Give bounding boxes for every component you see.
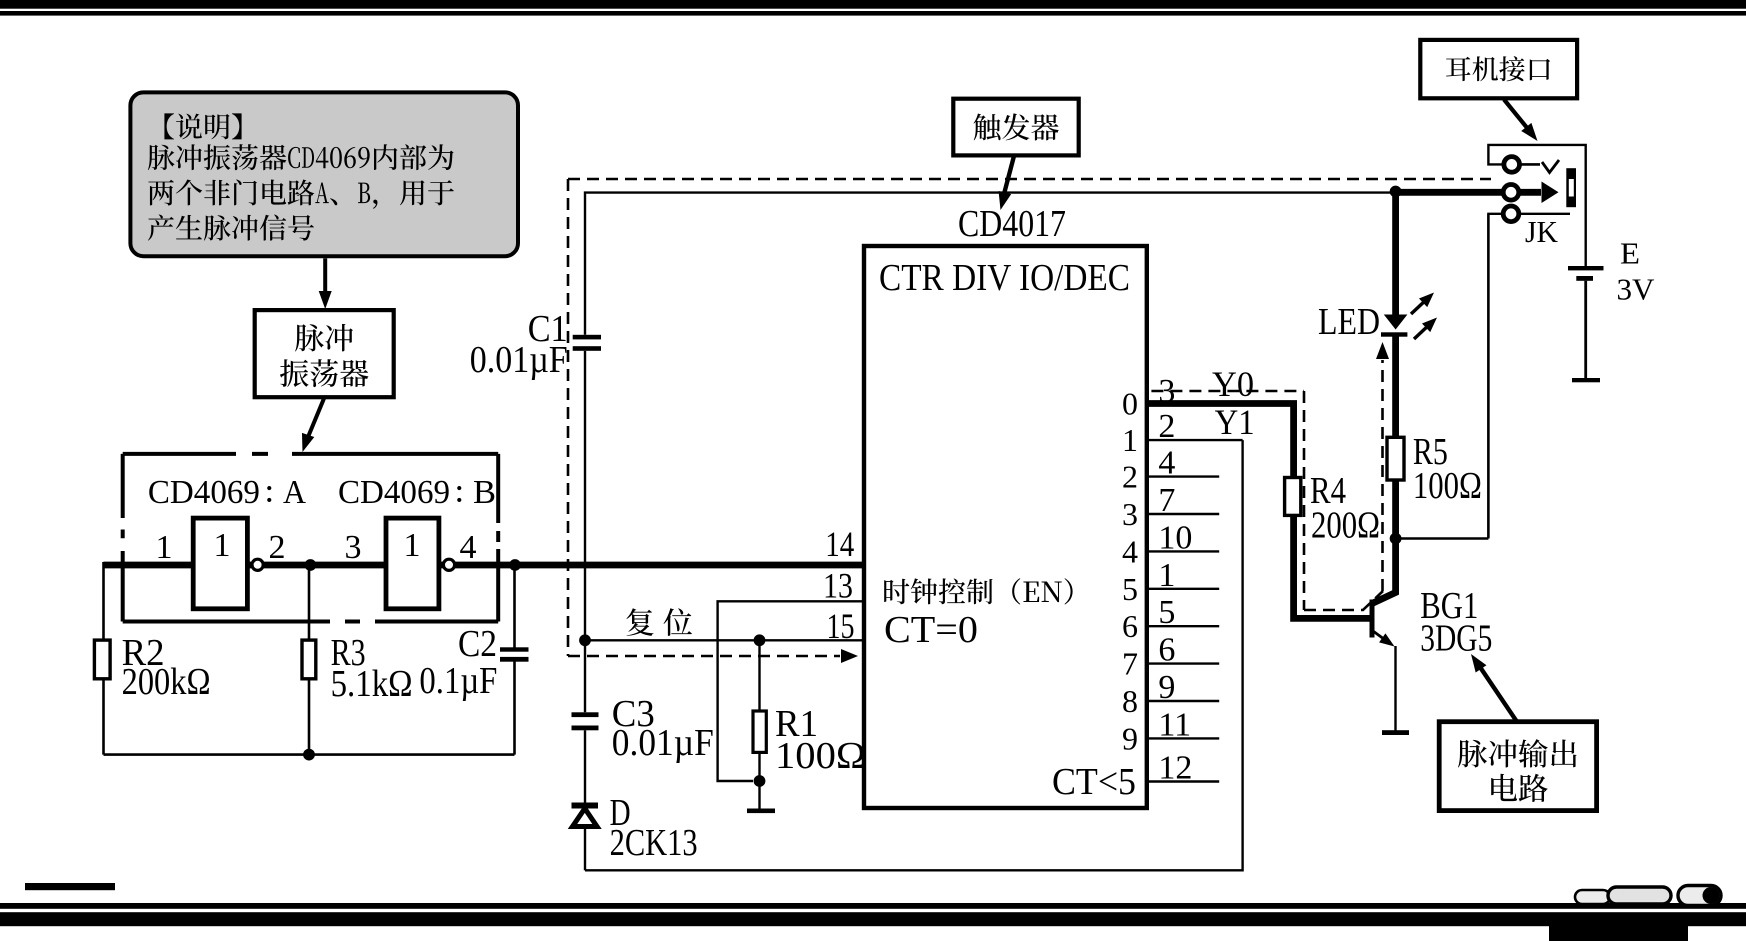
jack switch contact [1519,160,1559,173]
transistor BG1 collector [1372,480,1396,604]
note text line1 说明 [164,113,241,139]
pin label 4 [460,529,477,566]
arrow headphone->jack [1504,100,1538,142]
pin 14 label [825,524,854,564]
label BG1 [1420,585,1478,627]
svg-text:4: 4 [460,529,477,566]
node junction collector-jack [1390,533,1402,545]
label CT&lt;5 [1052,761,1136,803]
resistor R3 [302,640,316,679]
svg-text:11: 11 [1158,706,1191,743]
resistor R1 [753,711,766,752]
svg-text:CT=0: CT=0 [884,609,978,651]
wire emitter-ground [1394,646,1396,731]
svg-text:1: 1 [1158,557,1175,594]
dashed boundary top [568,178,1491,181]
label R1 value [775,735,866,777]
block 脉冲输出电路 [1439,722,1596,811]
dashed Y0 path vertical [1303,391,1306,610]
pin line out 7 [1147,662,1219,664]
text 脉冲输出 [1458,739,1577,768]
label E value [1617,272,1656,307]
svg-text:4: 4 [1122,533,1138,569]
label BG1 type [1420,618,1492,660]
svg-text:100Ω: 100Ω [1413,465,1482,507]
svg-text:1: 1 [214,527,231,564]
jack plug body [1566,168,1576,207]
CD4017 output label 7 [1122,646,1138,682]
CD4017 output label 9 [1122,720,1138,756]
CD4017 output label CT<5 row [1158,750,1192,787]
svg-text:2CK13: 2CK13 [610,822,698,864]
label CD4069:A [148,474,307,511]
svg-text:C2: C2 [458,623,497,665]
pin number 11 [1158,706,1191,743]
jack contact circle ring [1503,185,1519,201]
svg-text:CT<5: CT<5 [1052,761,1136,803]
note text line2 [148,144,454,170]
block 脉冲振荡器 [255,310,394,397]
svg-text:A: A [283,474,306,511]
CD4017 output label 8 [1122,683,1138,719]
pin label 2 [269,529,286,566]
svg-text:13: 13 [823,566,853,606]
capacitor C2 [500,647,529,661]
arrow output box->BG1 [1471,654,1517,722]
dashed Y0 path bottom [1304,591,1383,610]
IC box CD4069 right edge [496,454,500,622]
resistor R5 [1387,437,1404,480]
pin 13 label [823,566,853,606]
pin number 5 [1158,594,1175,631]
svg-text:3: 3 [345,529,362,566]
svg-text:5.1kΩ: 5.1kΩ [331,663,413,705]
resistor R2 [94,640,110,679]
capacitor C1 [573,335,601,351]
svg-text:10: 10 [1158,519,1192,556]
label Y0 [1212,364,1254,404]
pin line out 9 [1147,737,1219,739]
note text line3 [148,179,454,208]
battery E plate short [1576,276,1593,281]
pin line CT<5 [1147,780,1219,782]
wire signal thick to plug [1396,189,1541,196]
inverter U1B bubble [443,559,454,570]
jack outline top [1488,145,1585,266]
dashed LED path [1376,342,1389,591]
watermark capsule 3 [1678,886,1721,906]
block 触发器 [953,99,1078,156]
capacitor C3 [572,712,599,730]
pin 15 label [827,606,855,646]
svg-text:1: 1 [1122,422,1138,458]
wire pin13 loop [718,601,864,781]
wire Y1 feedback loop [585,440,1243,870]
pin number 3 [1158,373,1175,410]
label CT=0 [884,609,978,651]
label JK [1525,214,1559,249]
pin number 2 [1158,408,1175,445]
label C3 value [612,722,714,764]
svg-text:7: 7 [1158,482,1175,519]
text 振荡器 [280,359,369,387]
svg-text:CTR DIV IO/DEC: CTR DIV IO/DEC [879,257,1130,299]
label R4 value [1311,505,1380,547]
svg-text:14: 14 [825,524,854,564]
svg-text:9: 9 [1158,669,1175,706]
battery wire [1584,281,1587,378]
wire C3-D segment [584,640,586,803]
pin line out 3 [1147,513,1219,515]
inverter U1A bubble [252,559,263,570]
svg-text:4: 4 [1158,445,1175,482]
inverter U1A label 1 [214,527,231,564]
pin number 7 [1158,482,1175,519]
transistor BG1 base bar [1370,600,1375,638]
CD4017 output label 0 [1122,386,1138,422]
IC CD4017 box [864,246,1147,808]
CD4017 output label 2 [1122,459,1138,495]
label R1 [775,703,818,745]
pin line out 4 [1147,550,1219,552]
jack contact circle sleeve [1503,206,1519,222]
pin number 9 [1158,669,1175,706]
node junction reset-C3 [579,634,591,646]
watermark capsule 1 [1575,890,1610,904]
label C3 [612,693,655,735]
text 触发器 [974,113,1059,140]
wire D-bottom rail [584,826,586,871]
svg-text:5: 5 [1122,571,1138,607]
wire R2 left branch [104,562,515,755]
svg-text:7: 7 [1122,646,1138,682]
svg-text:0.01µF: 0.01µF [470,339,568,381]
svg-text:Y0: Y0 [1212,364,1254,404]
wire R3 branch [308,565,311,755]
label D [610,792,631,834]
label LED [1318,301,1380,343]
svg-text:JK: JK [1525,214,1559,249]
wire collector-R5-LED [1392,192,1399,480]
svg-text:100Ω: 100Ω [775,735,866,777]
label R3 value [331,663,413,705]
label R2 value [122,661,211,703]
label CD4017 [958,203,1066,245]
svg-text:0.01µF: 0.01µF [612,722,714,764]
wire coupling net top [585,193,1396,641]
svg-text:LED: LED [1318,301,1380,343]
node junction reset-R1 [754,634,766,646]
jack sleeve wire [1519,213,1570,215]
svg-text:1: 1 [404,527,421,564]
pin label 1 [156,529,173,566]
node junction pin4-C2 [509,559,521,571]
svg-text:2: 2 [269,529,286,566]
label D value [610,822,698,864]
battery E plate long [1568,266,1604,270]
label CTR DIV IO/DEC [879,257,1130,299]
label R2 [122,632,165,674]
label R5 [1413,431,1448,473]
svg-text:2: 2 [1158,408,1175,445]
label C1 [528,308,568,350]
svg-text:B: B [473,474,496,511]
inverter U1B box [386,518,439,609]
arrow trigger->CD4017 [999,156,1014,210]
label C1 value [470,339,568,381]
watermark capsule 2 [1608,887,1671,904]
CD4017 output label 3 [1122,496,1138,532]
svg-text:5: 5 [1158,594,1175,631]
svg-text:0: 0 [1122,386,1138,422]
ground symbol R1 [747,809,775,814]
IC box CD4069 left edge [121,454,125,622]
node junction bottom rail R3 [303,749,315,761]
pin number 4 [1158,445,1175,482]
label CD4069:B [338,474,496,511]
node junction R1 bottom [754,775,766,787]
wire R1 branch [758,640,760,809]
label Y1 [1215,402,1255,442]
svg-text:3: 3 [1122,496,1138,532]
svg-text:9: 9 [1122,720,1138,756]
dashed boundary left [567,179,570,656]
svg-text:8: 8 [1122,683,1138,719]
block 耳机接口 [1420,40,1577,98]
wire main clock net [104,562,865,569]
pin number 1 [1158,557,1175,594]
wire reset net [585,639,864,641]
pin line out 6 [1147,625,1219,627]
pin number 6 [1158,632,1175,669]
svg-text:E: E [1620,236,1640,271]
battery end bar [1572,378,1600,382]
svg-text:3DG5: 3DG5 [1420,618,1492,660]
pin label 3 [345,529,362,566]
IC box CD4069 top edge [123,452,499,456]
dashed reset arrow [568,649,858,663]
svg-text:15: 15 [827,606,855,646]
node junction pin2-R3 [305,559,317,571]
svg-text:200Ω: 200Ω [1311,505,1380,547]
svg-text:1: 1 [156,529,173,566]
IC box CD4069 bottom edge [123,620,499,624]
dashed Y0 path top [1151,390,1304,393]
CD4017 output label 6 [1122,608,1138,644]
arrow note->oscillator [319,258,332,309]
diode D 2CK13 [572,803,599,827]
pin line out 5 [1147,588,1219,590]
node junction signal-jack [1390,186,1402,198]
pin line out 2 [1147,475,1219,477]
border frame top [0,0,1746,16]
svg-text:3V: 3V [1617,272,1656,307]
svg-text:200kΩ: 200kΩ [122,661,211,703]
pin line out 1 [1147,439,1243,441]
resistor R4 [1285,478,1301,516]
label R3 [331,632,366,674]
label 时钟控制 (EN) [884,578,1072,604]
border frame bottom [0,883,1746,941]
transistor BG1 emitter [1373,631,1395,647]
svg-text:6: 6 [1158,632,1175,669]
label R5 value [1413,465,1482,507]
label E [1620,236,1640,271]
svg-text:Y1: Y1 [1215,402,1255,442]
arrow oscillator->CD4069 [302,397,325,452]
svg-text:CD4069: CD4069 [148,474,260,511]
pin number 10 [1158,519,1192,556]
CD4017 output label 4 [1122,533,1138,569]
LED arrows [1411,293,1437,340]
label R4 [1310,470,1346,512]
inverter U1B label 1 [404,527,421,564]
CD4017 output label 5 [1122,571,1138,607]
wire collector to jack sleeve [1396,214,1489,539]
LED diode [1381,315,1407,337]
jack contact circle tip [1504,157,1520,173]
text 脉冲 [295,324,353,352]
svg-text:CD4017: CD4017 [958,203,1066,245]
CD4017 output label 1 [1122,422,1138,458]
label C2 value [419,660,497,702]
svg-text:0.1µF: 0.1µF [419,660,497,702]
label C2 [458,623,497,665]
note box 说明 [130,92,518,256]
text 电路 [1491,774,1548,802]
inverter U1A box [193,518,247,609]
pin line out 8 [1147,700,1219,702]
jack plug tip [1542,182,1559,204]
wire Y0 thick path [1147,404,1370,619]
text 耳机接口 [1446,56,1550,81]
svg-text:CD4069: CD4069 [338,474,450,511]
wire C2 branch [513,565,516,755]
jack outline bottom [1488,214,1502,538]
svg-text:2: 2 [1122,459,1138,495]
ground symbol BG1 [1382,730,1409,735]
label 复位 [626,608,692,636]
svg-text:6: 6 [1122,608,1138,644]
note text line4 [148,214,314,240]
